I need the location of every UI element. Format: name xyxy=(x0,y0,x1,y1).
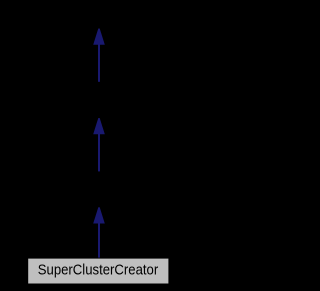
node SuperClusterCreator box border xyxy=(28,258,169,284)
arrow A2 (middle inheritance arrow) xyxy=(93,118,105,171)
arrow A3 (bottom inheritance arrow) xyxy=(93,207,105,259)
svg-text:SuperClusterCreator: SuperClusterCreator xyxy=(38,263,159,279)
node SuperClusterCreator box fill xyxy=(28,259,168,284)
inheritance graph canvas xyxy=(0,0,197,291)
arrow A1 (top inheritance arrow) xyxy=(93,29,105,82)
